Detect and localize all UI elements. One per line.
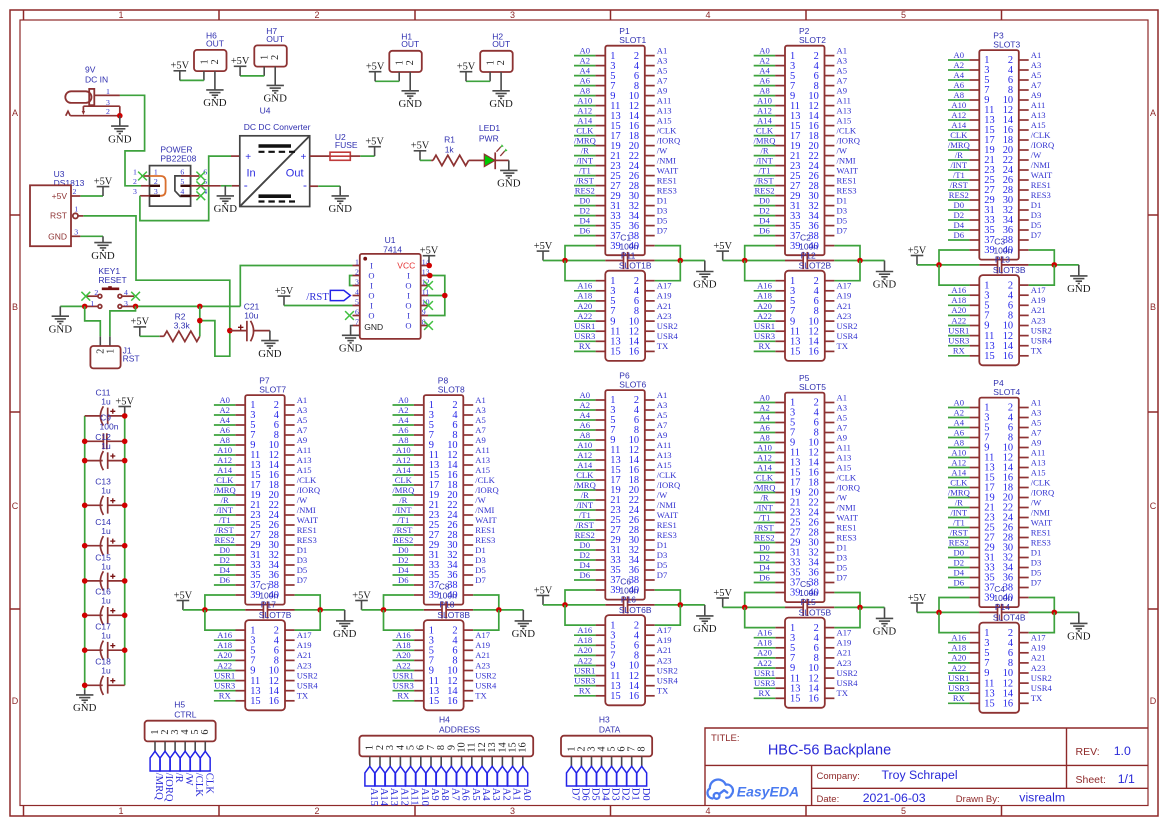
wire +5V rail (cap bank left) [84, 416, 86, 690]
wire net A16 [948, 294, 970, 296]
wire net RX [574, 695, 596, 697]
port flag /MRQ [150, 751, 164, 800]
wire net A18 [574, 644, 596, 646]
ground GND (P5 rail) [884, 607, 886, 618]
svg-text:/R: /R [173, 773, 184, 784]
wire P7 pin40 to GND rail [295, 595, 321, 610]
svg-text:D1: D1 [657, 540, 668, 550]
svg-text:D5: D5 [590, 788, 601, 801]
svg-text:16: 16 [808, 347, 818, 358]
wire net CLK [948, 139, 969, 141]
svg-text:O: O [405, 301, 411, 311]
wire net A6 [948, 89, 969, 91]
svg-text:RES3: RES3 [1031, 190, 1051, 200]
svg-text:D3: D3 [475, 555, 486, 565]
wire H3 pin6 [621, 756, 623, 766]
svg-text:O: O [405, 281, 411, 291]
wire R2 to reset net [199, 306, 201, 336]
svg-text:A6: A6 [580, 420, 591, 430]
junction rail right [857, 605, 863, 611]
svg-text:A20: A20 [757, 301, 772, 311]
svg-text:D3: D3 [610, 788, 621, 801]
svg-text:15: 15 [610, 691, 620, 702]
svg-text:A11: A11 [475, 445, 489, 455]
svg-text:/IORQ: /IORQ [837, 135, 861, 145]
wire net A20 [574, 654, 596, 656]
svg-text:/MRQ: /MRQ [574, 135, 597, 145]
svg-text:A1: A1 [1031, 397, 1042, 407]
svg-text:H4: H4 [439, 715, 450, 725]
svg-text:A0: A0 [521, 788, 532, 801]
wire net A4 [574, 75, 595, 77]
svg-text:I: I [407, 271, 410, 281]
svg-text:A3: A3 [1031, 60, 1042, 70]
wire net D0 [948, 209, 969, 211]
svg-text:A22: A22 [396, 660, 411, 670]
svg-text:USR1: USR1 [393, 670, 414, 680]
wire net USR3 [754, 340, 776, 342]
connector P15 SLOT5B [775, 597, 834, 708]
capacitor C2 100n [785, 232, 834, 269]
ground GND (H2) [489, 91, 513, 110]
svg-text:GND: GND [339, 343, 363, 355]
svg-text:SLOT6B: SLOT6B [619, 605, 652, 615]
wire GND to KEY1 pin1 [60, 305, 87, 307]
svg-text:USR1: USR1 [574, 665, 595, 675]
svg-text:A16: A16 [217, 630, 233, 640]
svg-text:1u: 1u [101, 561, 111, 571]
wire net A16 [948, 642, 970, 644]
wire net /INT [754, 512, 775, 514]
svg-text:D6: D6 [219, 575, 230, 585]
svg-text:1k: 1k [445, 144, 455, 154]
svg-text:A23: A23 [837, 658, 852, 668]
port flag A5 [467, 766, 481, 800]
svg-text:A22: A22 [217, 660, 232, 670]
wire pin2 H1 to GND [409, 72, 411, 91]
svg-text:A22: A22 [577, 655, 592, 665]
wire +5V rail [362, 609, 424, 611]
wire net /T1 [574, 519, 595, 521]
wire net A22 [214, 670, 236, 672]
capacitor C21 10u [230, 301, 270, 341]
svg-text:D6: D6 [580, 225, 591, 235]
svg-text:/W: /W [1031, 150, 1042, 160]
svg-text:A9: A9 [657, 85, 668, 95]
svg-text:USR1: USR1 [574, 321, 595, 331]
junction right rail C12 [122, 458, 128, 464]
svg-text:2: 2 [314, 10, 319, 20]
wire pin1 H2 to +5V [489, 72, 491, 81]
svg-text:3: 3 [106, 98, 110, 107]
svg-text:A0: A0 [580, 45, 591, 55]
wire U1 pin13-11-9 loop [428, 276, 445, 316]
wire P3 pin40 to GND rail [1029, 250, 1055, 265]
svg-text:A14: A14 [757, 462, 773, 472]
svg-text:USR3: USR3 [574, 676, 595, 686]
svg-text:GND: GND [693, 623, 717, 635]
wire net RES2 [393, 544, 414, 546]
svg-text:RES1: RES1 [837, 522, 857, 532]
svg-text:D5: D5 [475, 565, 486, 575]
wire P16 pin2 to GND rail [655, 605, 681, 625]
connector P7 SLOT7 [235, 375, 294, 604]
svg-text:RES1: RES1 [657, 175, 677, 185]
svg-text:A18: A18 [757, 291, 772, 301]
svg-text:A0: A0 [219, 395, 230, 405]
connector P6 SLOT6 [595, 370, 654, 599]
svg-text:A0: A0 [954, 397, 965, 407]
svg-text:GND: GND [73, 702, 97, 714]
svg-text:3: 3 [154, 187, 158, 196]
svg-text:B: B [1150, 302, 1156, 312]
junction KEY1 pin3 / J1 [133, 304, 139, 310]
svg-text:+5V: +5V [231, 56, 250, 67]
svg-text:/RST: /RST [755, 522, 774, 532]
wire P14 pin1 to +5V rail [939, 612, 970, 632]
wire P1 pin39 to +5V rail [565, 246, 595, 261]
svg-text:TX: TX [657, 341, 669, 351]
svg-text:In: In [247, 168, 256, 180]
wire net /INT [393, 514, 414, 516]
svg-text:TX: TX [297, 691, 309, 701]
svg-text:GND: GND [873, 626, 897, 638]
capacitor C3 100n [979, 237, 1028, 274]
svg-text:A16: A16 [951, 633, 967, 643]
svg-text:RES1: RES1 [475, 525, 495, 535]
svg-text:A20: A20 [577, 645, 592, 655]
svg-text:16: 16 [1003, 699, 1013, 710]
svg-text:1: 1 [118, 10, 123, 20]
wire net A14 [574, 469, 595, 471]
junction right rail C13 [122, 503, 128, 509]
svg-text:D3: D3 [657, 550, 668, 560]
svg-text:D1: D1 [1031, 200, 1042, 210]
svg-text:CLK: CLK [950, 130, 968, 140]
wire net /INT [948, 517, 969, 519]
junction right rail C14 [122, 543, 128, 549]
svg-text:visrealm: visrealm [1019, 791, 1065, 805]
wire P13 pin2 to GND rail [1029, 265, 1055, 285]
wire net /MRQ [574, 145, 595, 147]
svg-text:A21: A21 [837, 301, 852, 311]
svg-text:GND: GND [214, 203, 238, 215]
svg-text:A15: A15 [657, 115, 672, 125]
connector P4 SLOT4 [969, 378, 1028, 607]
svg-text:A4: A4 [398, 415, 409, 425]
svg-text:H5: H5 [174, 700, 185, 710]
svg-text:A2: A2 [500, 788, 511, 801]
svg-text:A8: A8 [439, 788, 450, 801]
port flag A1 [508, 766, 522, 800]
svg-text:D4: D4 [398, 565, 409, 575]
wire net /RST [574, 529, 595, 531]
wire net A8 [754, 95, 775, 97]
svg-text:D5: D5 [837, 215, 848, 225]
wire net A20 [948, 662, 970, 664]
svg-text:2: 2 [496, 60, 507, 65]
svg-text:SLOT1: SLOT1 [619, 35, 646, 45]
junction rail right [317, 607, 323, 613]
wire net A14 [393, 474, 414, 476]
svg-text:/T1: /T1 [953, 170, 965, 180]
svg-text:/CLK: /CLK [657, 125, 677, 135]
svg-text:A2: A2 [954, 407, 965, 417]
connector P8 SLOT8 [414, 375, 473, 604]
svg-text:A21: A21 [1031, 305, 1046, 315]
svg-text:A23: A23 [475, 660, 490, 670]
port flag A15 [365, 766, 379, 806]
svg-text:A21: A21 [837, 648, 852, 658]
junction KEY1 pin1 / J1 [82, 304, 88, 310]
svg-text:D4: D4 [954, 220, 965, 230]
wire pin1 H6 to +5V [203, 71, 205, 80]
svg-text:A10: A10 [951, 100, 966, 110]
wire net A16 [214, 639, 236, 641]
svg-text:RX: RX [219, 691, 232, 701]
wire P11 pin1 to +5V rail [565, 261, 596, 281]
wire P8 pin39 to +5V rail [384, 595, 414, 610]
connector J1 RST [90, 345, 139, 368]
svg-text:A21: A21 [297, 650, 312, 660]
svg-text:A14: A14 [577, 460, 593, 470]
svg-text:GND: GND [1067, 283, 1091, 295]
svg-text:TX: TX [837, 688, 849, 698]
wire GND rail [1029, 611, 1079, 613]
wire +5V to U1 pin5 [284, 305, 353, 307]
wire GND rail [295, 609, 345, 611]
svg-text:A6: A6 [580, 75, 591, 85]
wire net D4 [948, 229, 969, 231]
svg-text:+5V: +5V [94, 176, 113, 187]
ground GND (DC IN) [108, 126, 132, 145]
power flag +5V (cap bank) [115, 396, 134, 416]
svg-text:PWR: PWR [479, 134, 499, 144]
wire net A14 [948, 477, 969, 479]
svg-text:A22: A22 [951, 663, 966, 673]
wire net /MRQ [393, 494, 414, 496]
svg-text:A23: A23 [297, 660, 312, 670]
connector P5 SLOT5 [775, 373, 834, 602]
svg-text:I: I [407, 291, 410, 301]
svg-text:D1: D1 [297, 545, 308, 555]
svg-text:D0: D0 [580, 540, 591, 550]
svg-text:A7: A7 [475, 425, 486, 435]
wire net D6 [948, 239, 969, 241]
svg-text:GND: GND [91, 250, 115, 262]
svg-text:A14: A14 [217, 465, 233, 475]
wire net /R [754, 502, 775, 504]
svg-text:USR3: USR3 [948, 683, 969, 693]
wire net D2 [393, 564, 414, 566]
svg-text:A1: A1 [297, 395, 308, 405]
svg-text:O: O [368, 311, 374, 321]
connector P13 SLOT3B [970, 255, 1029, 366]
wire P5 pin40 to GND rail [834, 593, 860, 608]
no-connect X POWER pin1 [138, 172, 147, 181]
wire C21 to GND [269, 331, 271, 341]
svg-text:1: 1 [90, 299, 94, 308]
capacitor C17 1u [85, 622, 125, 660]
wire P3 pin39 to +5V rail [939, 250, 969, 265]
svg-text:/NMI: /NMI [297, 505, 316, 515]
svg-text:A9: A9 [1031, 90, 1042, 100]
svg-text:USR3: USR3 [214, 681, 235, 691]
wire +5V rail [543, 604, 605, 606]
wire net USR1 [948, 335, 970, 337]
wire net D6 [574, 579, 595, 581]
wire net USR3 [574, 340, 596, 342]
svg-text:-: - [303, 178, 307, 192]
svg-text:D7: D7 [1031, 577, 1042, 587]
svg-text:4: 4 [705, 10, 710, 20]
svg-text:P17: P17 [261, 600, 276, 610]
wire net /R [948, 159, 969, 161]
svg-text:RES1: RES1 [657, 520, 677, 530]
ground GND (U4 Out-) [328, 196, 352, 215]
svg-text:A19: A19 [1031, 643, 1046, 653]
capacitor C4 100n [979, 584, 1028, 621]
wire net A10 [948, 457, 969, 459]
svg-text:1: 1 [486, 60, 497, 65]
svg-text:A17: A17 [297, 630, 313, 640]
svg-text:A7: A7 [1031, 80, 1042, 90]
svg-text:A2: A2 [398, 405, 409, 415]
svg-text:3: 3 [74, 228, 78, 237]
svg-text:1u: 1u [101, 441, 111, 451]
wire net D4 [754, 572, 775, 574]
svg-text:A10: A10 [396, 445, 411, 455]
wire net A10 [948, 109, 969, 111]
junction right rail C9 [122, 439, 128, 445]
wire net A12 [393, 464, 414, 466]
svg-text:GND: GND [398, 98, 422, 110]
wire net /R [214, 504, 235, 506]
svg-text:I: I [370, 261, 373, 271]
title block [705, 728, 1148, 806]
capacitor C13 1u [85, 477, 125, 515]
svg-text:A6: A6 [759, 422, 770, 432]
svg-text:D0: D0 [954, 200, 965, 210]
wire net USR3 [393, 690, 415, 692]
ground GND (H1) [398, 91, 422, 110]
svg-text:A10: A10 [757, 95, 772, 105]
svg-text:A11: A11 [1031, 100, 1045, 110]
svg-text:/NMI: /NMI [657, 500, 676, 510]
svg-text:/R: /R [581, 490, 589, 500]
no-connect X POWER pin4 [196, 191, 205, 200]
wire net A8 [393, 444, 414, 446]
wire P2 pin39 to +5V rail [745, 246, 775, 261]
no-connect X POWER pin5 [196, 181, 205, 190]
svg-text:4: 4 [124, 288, 128, 297]
port flag D6 [577, 766, 591, 800]
wire P13 pin1 to +5V rail [939, 265, 970, 285]
svg-text:A18: A18 [951, 295, 966, 305]
svg-text:OUT: OUT [492, 39, 510, 49]
svg-text:D2: D2 [759, 552, 770, 562]
svg-text:CTRL: CTRL [174, 710, 196, 720]
svg-text:D1: D1 [1031, 547, 1042, 557]
svg-text:A19: A19 [297, 640, 312, 650]
wire net A2 [574, 409, 595, 411]
svg-text:/RST: /RST [576, 175, 595, 185]
svg-text:SLOT3B: SLOT3B [993, 265, 1026, 275]
svg-text:1: 1 [154, 167, 158, 176]
wire net /RST [214, 534, 235, 536]
svg-text:RES2: RES2 [215, 535, 235, 545]
power flag +5V (H2) [457, 62, 476, 82]
svg-text:A22: A22 [577, 311, 592, 321]
wire net A6 [214, 434, 235, 436]
svg-text:D1: D1 [837, 542, 848, 552]
svg-text:D4: D4 [580, 215, 591, 225]
wire pin1 H7 to +5V [263, 67, 265, 76]
svg-text:A6: A6 [759, 75, 770, 85]
svg-text:A18: A18 [951, 643, 966, 653]
svg-text:A17: A17 [1031, 285, 1047, 295]
wire net RX [214, 700, 236, 702]
svg-text:A4: A4 [954, 70, 965, 80]
no-connect X U1 pin10 [424, 301, 433, 310]
svg-text:9V: 9V [85, 64, 96, 74]
svg-text:D0: D0 [219, 545, 230, 555]
wire net A4 [574, 419, 595, 421]
svg-text:D3: D3 [837, 205, 848, 215]
svg-text:A17: A17 [657, 625, 673, 635]
svg-text:/RST: /RST [950, 180, 969, 190]
port flag D2 [617, 766, 631, 800]
wire net A12 [574, 459, 595, 461]
svg-text:D1: D1 [630, 788, 641, 801]
port flag /IORQ [160, 751, 174, 802]
wire U3 pin3 to GND [80, 235, 103, 237]
svg-text:D0: D0 [954, 547, 965, 557]
svg-text:A17: A17 [475, 630, 491, 640]
wire net USR1 [754, 677, 776, 679]
svg-text:5: 5 [355, 298, 359, 307]
ground GND (U4 In-) [214, 196, 238, 215]
svg-text:GND: GND [258, 348, 282, 360]
wire net D2 [754, 562, 775, 564]
wire net D2 [574, 559, 595, 561]
wire P6 pin40 to GND rail [655, 590, 681, 605]
svg-text:GND: GND [497, 178, 521, 190]
wire P15 pin2 to GND rail [834, 607, 860, 627]
svg-text:A5: A5 [657, 65, 668, 75]
svg-text:USR3: USR3 [948, 336, 969, 346]
svg-text:RES2: RES2 [949, 537, 969, 547]
svg-text:VCC: VCC [397, 261, 415, 271]
svg-text:RX: RX [759, 341, 772, 351]
power flag +5V (P2 rail) [713, 241, 732, 261]
wire P2 pin40 to GND rail [834, 246, 860, 261]
wire net RES2 [574, 195, 595, 197]
wire LED to GND [508, 160, 510, 170]
wire H4 pin9 [450, 756, 452, 766]
wire net A20 [754, 310, 776, 312]
wire H3 pin4 [601, 756, 603, 766]
power flag +5V (U1 pin5) [275, 286, 294, 306]
svg-text:D2: D2 [954, 210, 965, 220]
connector P3 SLOT3 [969, 30, 1028, 259]
wire H5 pin2 [164, 741, 166, 751]
ground GND (LED1) [497, 170, 521, 189]
svg-text:/T1: /T1 [219, 515, 231, 525]
svg-text:A1: A1 [657, 390, 668, 400]
svg-text:D2: D2 [759, 205, 770, 215]
svg-text:16: 16 [629, 691, 639, 702]
